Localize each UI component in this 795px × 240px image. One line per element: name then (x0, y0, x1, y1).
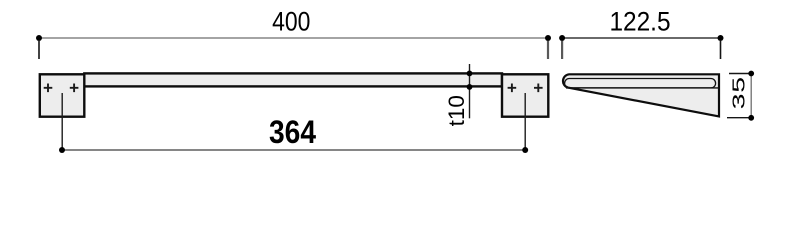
svg-text:t10: t10 (444, 95, 469, 126)
svg-text:364: 364 (269, 116, 316, 151)
svg-text:400: 400 (272, 7, 310, 37)
svg-text:122.5: 122.5 (609, 8, 670, 37)
svg-text:35: 35 (729, 76, 749, 109)
